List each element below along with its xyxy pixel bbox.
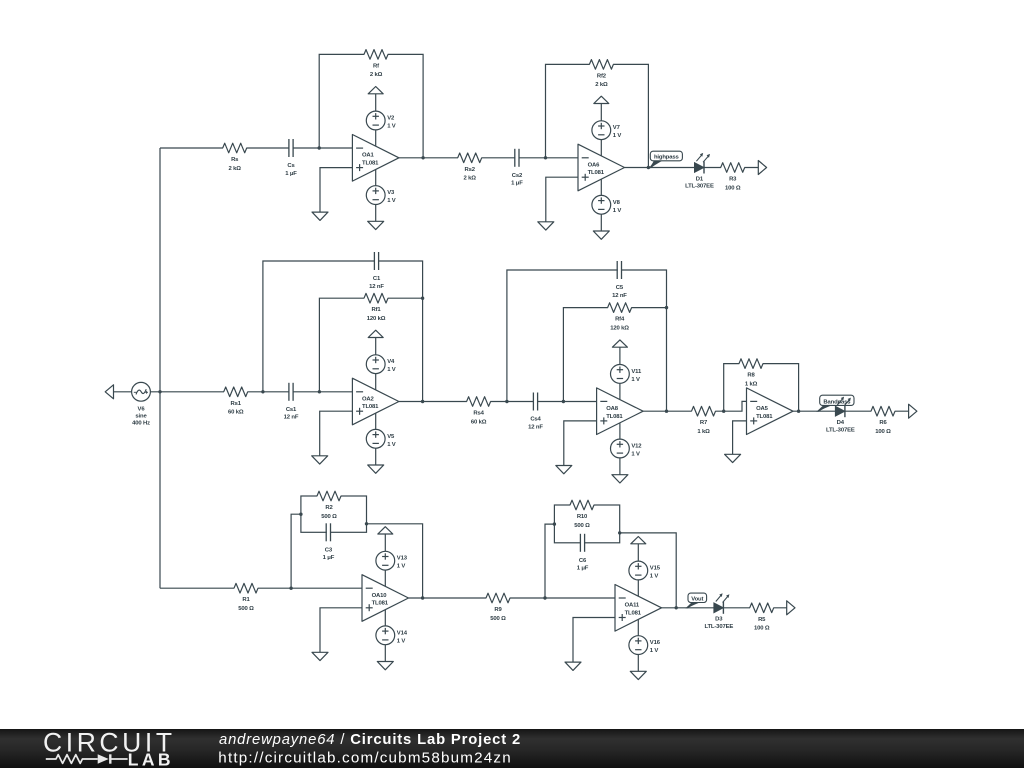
svg-text:LAB: LAB bbox=[128, 749, 174, 768]
svg-text:V11: V11 bbox=[631, 369, 642, 375]
svg-text:OA2: OA2 bbox=[362, 396, 375, 402]
svg-text:12 nF: 12 nF bbox=[284, 415, 299, 421]
svg-text:1 kΩ: 1 kΩ bbox=[697, 429, 710, 435]
svg-text:500 Ω: 500 Ω bbox=[238, 606, 254, 612]
svg-text:1 V: 1 V bbox=[631, 377, 640, 383]
svg-text:1 μF: 1 μF bbox=[285, 171, 297, 177]
svg-text:Rs4: Rs4 bbox=[473, 411, 484, 417]
svg-text:OA1: OA1 bbox=[362, 153, 375, 159]
svg-text:TL081: TL081 bbox=[756, 414, 773, 420]
svg-text:V6: V6 bbox=[138, 406, 146, 412]
svg-text:1 V: 1 V bbox=[397, 564, 406, 570]
svg-text:TL081: TL081 bbox=[362, 404, 379, 410]
svg-text:100 Ω: 100 Ω bbox=[725, 185, 741, 191]
svg-text:V13: V13 bbox=[397, 556, 408, 562]
svg-text:OA6: OA6 bbox=[588, 162, 601, 168]
svg-text:1 μF: 1 μF bbox=[323, 555, 335, 561]
svg-text:1 V: 1 V bbox=[650, 648, 659, 654]
svg-text:V4: V4 bbox=[387, 359, 395, 365]
svg-text:500 Ω: 500 Ω bbox=[574, 523, 590, 529]
svg-text:R10: R10 bbox=[577, 514, 588, 520]
svg-text:C3: C3 bbox=[325, 547, 333, 553]
svg-text:500 Ω: 500 Ω bbox=[490, 616, 506, 622]
svg-text:R5: R5 bbox=[758, 617, 766, 623]
svg-text:TL081: TL081 bbox=[606, 414, 623, 420]
svg-text:1 V: 1 V bbox=[631, 452, 640, 458]
svg-text:1 V: 1 V bbox=[387, 198, 396, 204]
svg-text:2 kΩ: 2 kΩ bbox=[229, 166, 242, 172]
svg-text:Rf: Rf bbox=[373, 63, 379, 69]
svg-text:TL081: TL081 bbox=[362, 161, 379, 167]
svg-text:sine: sine bbox=[135, 414, 147, 420]
svg-text:LTL-307EE: LTL-307EE bbox=[704, 624, 733, 630]
svg-text:Rs1: Rs1 bbox=[231, 401, 242, 407]
svg-text:Vout: Vout bbox=[691, 596, 703, 602]
svg-text:C6: C6 bbox=[579, 558, 587, 564]
svg-text:100 Ω: 100 Ω bbox=[875, 429, 891, 435]
svg-text:Cs2: Cs2 bbox=[512, 173, 523, 179]
svg-text:1 V: 1 V bbox=[397, 638, 406, 644]
svg-text:OA8: OA8 bbox=[606, 406, 619, 412]
svg-text:D1: D1 bbox=[696, 176, 704, 182]
svg-text:V14: V14 bbox=[397, 630, 408, 636]
svg-text:LTL-307EE: LTL-307EE bbox=[685, 184, 714, 190]
svg-text:TL081: TL081 bbox=[625, 611, 642, 617]
svg-text:LTL-307EE: LTL-307EE bbox=[826, 427, 855, 433]
svg-text:60 kΩ: 60 kΩ bbox=[228, 410, 244, 416]
svg-text:TL081: TL081 bbox=[372, 601, 389, 607]
svg-text:2 kΩ: 2 kΩ bbox=[370, 72, 383, 78]
svg-text:120 kΩ: 120 kΩ bbox=[610, 325, 629, 331]
svg-text:V8: V8 bbox=[613, 200, 621, 206]
svg-text:400 Hz: 400 Hz bbox=[132, 421, 150, 427]
svg-text:OA5: OA5 bbox=[756, 406, 769, 412]
svg-text:1 V: 1 V bbox=[387, 442, 396, 448]
svg-text:2 kΩ: 2 kΩ bbox=[595, 82, 608, 88]
svg-text:1 kΩ: 1 kΩ bbox=[745, 381, 758, 387]
svg-text:V16: V16 bbox=[650, 640, 661, 646]
svg-text:TL081: TL081 bbox=[588, 170, 605, 176]
svg-text:12 nF: 12 nF bbox=[369, 284, 384, 290]
svg-text:Bandpass: Bandpass bbox=[823, 399, 851, 405]
svg-text:Cs: Cs bbox=[287, 163, 295, 169]
svg-text:D3: D3 bbox=[715, 617, 723, 623]
svg-text:C1: C1 bbox=[373, 276, 381, 282]
svg-text:Cs1: Cs1 bbox=[286, 407, 297, 413]
svg-text:andrewpayne64 / Circuits Lab P: andrewpayne64 / Circuits Lab Project 2 bbox=[219, 732, 521, 748]
svg-text:http://circuitlab.com/cubm58bu: http://circuitlab.com/cubm58bum24zn bbox=[218, 750, 512, 767]
svg-text:1 V: 1 V bbox=[650, 574, 659, 580]
svg-text:Rf1: Rf1 bbox=[371, 307, 381, 313]
svg-text:V3: V3 bbox=[387, 190, 395, 196]
svg-text:D4: D4 bbox=[837, 420, 845, 426]
svg-text:1 V: 1 V bbox=[613, 133, 622, 139]
svg-text:100 Ω: 100 Ω bbox=[754, 626, 770, 632]
svg-text:1 V: 1 V bbox=[387, 124, 396, 130]
svg-text:2 kΩ: 2 kΩ bbox=[464, 176, 477, 182]
svg-text:1 μF: 1 μF bbox=[577, 566, 589, 572]
svg-text:R8: R8 bbox=[747, 373, 755, 379]
svg-text:OA10: OA10 bbox=[372, 593, 388, 599]
svg-text:V5: V5 bbox=[387, 434, 395, 440]
svg-text:Rs: Rs bbox=[231, 157, 239, 163]
svg-text:R2: R2 bbox=[325, 505, 333, 511]
svg-text:R9: R9 bbox=[494, 607, 502, 613]
svg-text:OA11: OA11 bbox=[625, 603, 640, 609]
svg-text:highpass: highpass bbox=[654, 155, 680, 161]
svg-text:12 nF: 12 nF bbox=[612, 293, 627, 299]
svg-text:60 kΩ: 60 kΩ bbox=[471, 419, 487, 425]
svg-text:1 V: 1 V bbox=[387, 367, 396, 373]
svg-text:1 V: 1 V bbox=[613, 208, 622, 214]
svg-text:R7: R7 bbox=[700, 420, 708, 426]
svg-text:120 kΩ: 120 kΩ bbox=[367, 316, 386, 322]
svg-text:Rf4: Rf4 bbox=[615, 317, 625, 323]
svg-text:V7: V7 bbox=[613, 125, 621, 131]
svg-text:V15: V15 bbox=[650, 566, 661, 572]
svg-text:R6: R6 bbox=[879, 420, 887, 426]
svg-text:Rf2: Rf2 bbox=[597, 73, 607, 79]
svg-text:500 Ω: 500 Ω bbox=[321, 514, 337, 520]
svg-text:C5: C5 bbox=[616, 285, 624, 291]
svg-text:R3: R3 bbox=[729, 177, 737, 183]
svg-text:1 μF: 1 μF bbox=[511, 181, 523, 187]
svg-text:V12: V12 bbox=[631, 444, 642, 450]
svg-text:Cs4: Cs4 bbox=[530, 417, 541, 423]
svg-text:R1: R1 bbox=[242, 597, 250, 603]
svg-text:12 nF: 12 nF bbox=[528, 424, 543, 430]
svg-text:Rs2: Rs2 bbox=[465, 167, 476, 173]
svg-text:V2: V2 bbox=[387, 116, 395, 122]
